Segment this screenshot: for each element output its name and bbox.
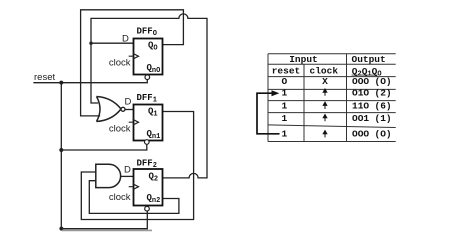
svg-text:clock: clock (109, 124, 131, 135)
svg-text:D: D (125, 97, 132, 108)
wire reset branch to DFF1 clear bubble (61, 144, 147, 150)
svg-text:O1O (2): O1O (2) (352, 88, 392, 99)
svg-text:Output: Output (352, 54, 386, 65)
AND gate U2 (96, 164, 121, 187)
node junction reset bottom corner (59, 227, 63, 231)
node junction D0 tap (89, 42, 92, 45)
clock edge marker of DFF0 (129, 53, 139, 59)
wire Qn2 feedback: Qn2 out, down, back left, up to AND input B (89, 181, 179, 214)
wire reset bottom run to DFF2 clear bubble (61, 211, 147, 229)
svg-text:OOO (O): OOO (O) (352, 129, 392, 140)
wire Q2 feedback: Q2 out, hop over Q1 line, up right side, across (hop), down to D0 junction and NOR input A (91, 14, 207, 178)
svg-text:reset: reset (272, 65, 301, 76)
NOR gate U1 (97, 97, 122, 122)
svg-text:OO1 (1): OO1 (1) (352, 113, 392, 124)
wire D0 input from junction into DFF0 (91, 42, 134, 44)
D flip-flop DFF1 body (134, 105, 163, 141)
state table row texts (282, 76, 392, 139)
state table header texts (272, 54, 386, 78)
clear bubble of DFF1 (145, 140, 150, 145)
repeat-loop arrow from last row back to second row (257, 93, 280, 134)
svg-text:DFF2: DFF2 (137, 159, 157, 171)
state table clock-edge arrows (323, 89, 327, 137)
NOR output bubble (121, 107, 125, 111)
svg-text:Input: Input (289, 54, 318, 65)
wire reset vertical drop (60, 83, 62, 229)
svg-text:1: 1 (282, 101, 288, 112)
svg-text:D: D (122, 34, 129, 45)
scan shadow at bottom edge (62, 229, 152, 231)
svg-text:clock: clock (310, 65, 339, 76)
wire D1 from NOR output bubble into DFF1 (125, 109, 134, 111)
wire reset net: horizontal run into DFF0 clear bubble (34, 80, 147, 83)
svg-text:reset: reset (34, 72, 55, 83)
svg-text:11O (6): 11O (6) (352, 101, 392, 112)
svg-text:O: O (282, 76, 288, 87)
svg-text:DFF1: DFF1 (137, 93, 157, 105)
state table grid (268, 54, 396, 142)
svg-text:D: D (124, 165, 131, 176)
svg-text:clock: clock (109, 58, 131, 69)
svg-text:1: 1 (282, 113, 288, 124)
wire D2 from AND output into DFF2 (121, 175, 134, 177)
node junction reset tap at DFF1 row (59, 148, 63, 152)
clock edge marker of DFF1 (129, 119, 139, 125)
clock edge marker of DFF2 (129, 184, 139, 190)
svg-text:1: 1 (282, 129, 288, 140)
svg-text:1: 1 (282, 88, 288, 99)
D flip-flop DFF2 body (134, 169, 163, 206)
wire Q1 feedback: Q1 out, down right side, across bottom, up to AND input A (81, 112, 193, 220)
D flip-flop DFF0 body (134, 39, 163, 75)
svg-text:DFFO: DFFO (137, 27, 157, 39)
clear bubble of DFF2 (145, 206, 150, 211)
clear bubble of DFF0 (145, 75, 150, 80)
svg-text:clock: clock (109, 192, 131, 203)
node junction reset tap at DFF0 row (59, 81, 63, 85)
wire Q0 feedback: Q0 out right, up, across top, down to NOR input B (81, 10, 184, 116)
svg-text:OOO (O): OOO (O) (352, 76, 392, 87)
svg-text:X: X (322, 76, 328, 87)
